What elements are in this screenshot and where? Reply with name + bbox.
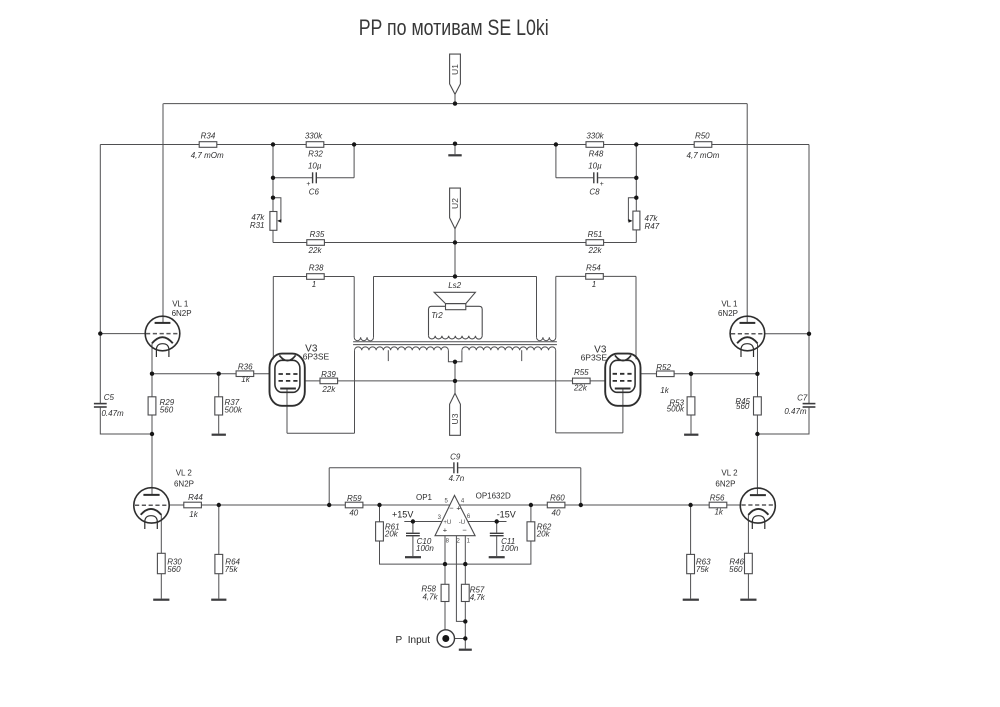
svg-text:−: − <box>462 525 467 534</box>
svg-text:+15V: +15V <box>392 509 413 519</box>
svg-text:VL 1: VL 1 <box>172 300 189 309</box>
svg-text:R36: R36 <box>238 362 253 371</box>
svg-text:PP по мотивам SE L0ki: PP по мотивам SE L0ki <box>359 15 549 40</box>
svg-text:P Input: P Input <box>396 635 431 646</box>
svg-text:4.7n: 4.7n <box>449 474 465 483</box>
svg-text:R59: R59 <box>347 494 362 503</box>
svg-text:+: + <box>600 181 604 188</box>
svg-text:R55: R55 <box>574 368 589 377</box>
svg-text:6N2P: 6N2P <box>715 480 735 489</box>
svg-text:R34: R34 <box>201 132 216 141</box>
svg-text:R52: R52 <box>656 363 671 372</box>
svg-text:22k: 22k <box>321 385 336 394</box>
svg-text:R60: R60 <box>550 494 565 503</box>
svg-text:Tr2: Tr2 <box>431 311 443 320</box>
svg-text:40: 40 <box>349 508 358 517</box>
svg-text:C5: C5 <box>104 393 115 402</box>
svg-text:6N2P: 6N2P <box>718 309 738 318</box>
svg-text:+: + <box>456 503 461 512</box>
svg-text:R35: R35 <box>310 230 325 239</box>
svg-text:100n: 100n <box>416 544 434 553</box>
svg-text:20k: 20k <box>384 530 399 539</box>
svg-text:75k: 75k <box>696 565 710 574</box>
svg-text:4,7 mOm: 4,7 mOm <box>191 151 224 160</box>
svg-text:-15V: -15V <box>497 509 516 519</box>
svg-text:R39: R39 <box>321 370 336 379</box>
svg-text:10µ: 10µ <box>308 161 322 170</box>
svg-text:R38: R38 <box>309 264 324 273</box>
svg-text:R48: R48 <box>589 149 604 158</box>
svg-text:+: + <box>306 181 310 188</box>
svg-text:40: 40 <box>552 509 561 518</box>
svg-text:−: − <box>449 503 454 512</box>
svg-text:R56: R56 <box>710 494 725 503</box>
svg-text:1: 1 <box>312 280 316 289</box>
svg-text:560: 560 <box>160 406 174 415</box>
svg-text:1k: 1k <box>241 375 250 384</box>
svg-text:C6: C6 <box>309 188 320 197</box>
svg-text:4,7 mOm: 4,7 mOm <box>687 151 720 160</box>
svg-text:R31: R31 <box>250 221 265 230</box>
svg-text:R32: R32 <box>308 149 323 158</box>
svg-text:U2: U2 <box>450 198 460 209</box>
svg-text:4,7k: 4,7k <box>422 592 438 601</box>
svg-text:1k: 1k <box>189 510 198 519</box>
svg-text:330k: 330k <box>305 132 323 141</box>
svg-text:OP1: OP1 <box>416 493 433 502</box>
svg-text:1k: 1k <box>714 507 723 516</box>
svg-text:6P3SE: 6P3SE <box>303 352 330 362</box>
svg-text:Ls2: Ls2 <box>448 281 461 290</box>
svg-text:22k: 22k <box>308 246 323 255</box>
svg-text:500k: 500k <box>667 405 685 414</box>
svg-text:0.47m: 0.47m <box>101 409 124 418</box>
svg-text:C8: C8 <box>589 188 600 197</box>
svg-text:+: + <box>443 525 448 534</box>
svg-text:1: 1 <box>592 280 596 289</box>
svg-text:560: 560 <box>729 565 743 574</box>
svg-text:6N2P: 6N2P <box>172 309 192 318</box>
svg-text:VL 2: VL 2 <box>176 469 193 478</box>
svg-text:0.47m: 0.47m <box>784 407 807 416</box>
svg-text:4,7k: 4,7k <box>470 593 486 602</box>
svg-text:22k: 22k <box>588 246 603 255</box>
svg-text:C7: C7 <box>797 393 808 402</box>
svg-text:R51: R51 <box>588 230 603 239</box>
svg-text:100n: 100n <box>501 544 519 553</box>
svg-text:1k: 1k <box>660 386 669 395</box>
svg-text:22k: 22k <box>573 383 588 392</box>
svg-text:75k: 75k <box>225 565 239 574</box>
svg-text:560: 560 <box>167 565 181 574</box>
svg-text:R50: R50 <box>695 132 710 141</box>
svg-text:20k: 20k <box>536 530 551 539</box>
svg-text:U1: U1 <box>450 64 460 75</box>
svg-text:500k: 500k <box>225 406 243 415</box>
svg-text:R47: R47 <box>645 222 660 231</box>
svg-text:560: 560 <box>736 402 750 411</box>
svg-text:R44: R44 <box>188 493 203 502</box>
svg-text:U3: U3 <box>450 413 460 424</box>
svg-text:R54: R54 <box>586 264 601 273</box>
svg-text:6P3SE: 6P3SE <box>581 353 608 363</box>
svg-text:OP1632D: OP1632D <box>476 492 511 501</box>
svg-text:330k: 330k <box>586 132 604 141</box>
svg-text:VL 1: VL 1 <box>721 300 738 309</box>
svg-text:10µ: 10µ <box>588 161 602 170</box>
svg-text:VL 2: VL 2 <box>721 469 738 478</box>
svg-text:C9: C9 <box>450 453 461 462</box>
svg-text:6N2P: 6N2P <box>174 480 194 489</box>
